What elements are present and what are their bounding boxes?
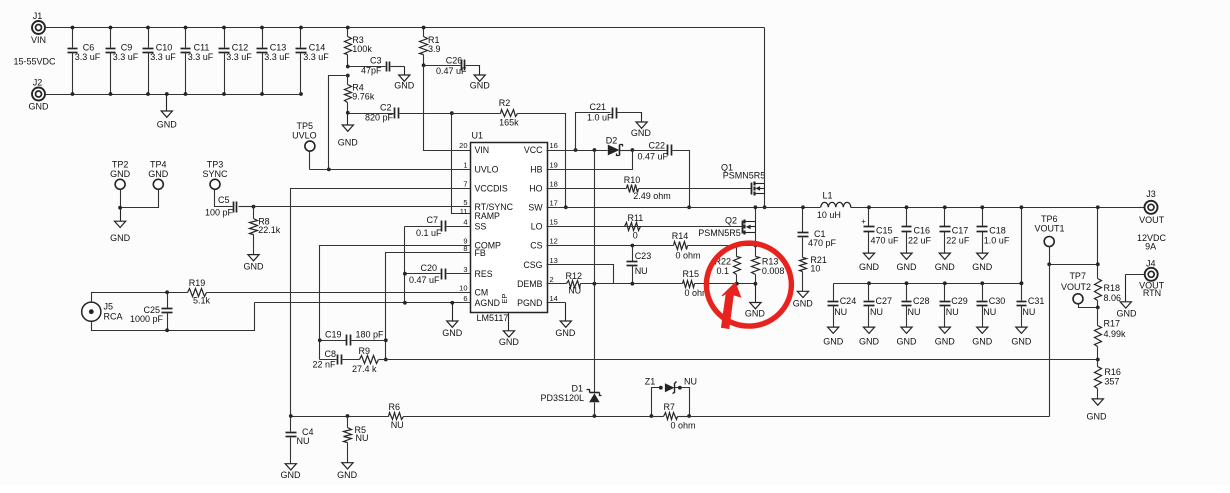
svg-text:DEMB: DEMB bbox=[517, 279, 543, 289]
wire DEMB/CSG to sense bbox=[593, 282, 683, 286]
wire VOUT rail bbox=[851, 207, 1145, 209]
wire SW node rail bbox=[547, 207, 821, 209]
wire bottom rail right bbox=[690, 416, 1050, 418]
resistor R8 22.1k bbox=[250, 207, 281, 255]
capacitor C20 0.47 uF (RES) bbox=[405, 263, 471, 285]
svg-text:12: 12 bbox=[550, 237, 558, 246]
svg-text:NU: NU bbox=[1022, 307, 1035, 317]
svg-text:C16: C16 bbox=[914, 225, 931, 235]
svg-text:L1: L1 bbox=[822, 190, 832, 200]
svg-text:C18: C18 bbox=[989, 225, 1006, 235]
wire TP6 column bbox=[1047, 247, 1051, 417]
svg-text:LM5117: LM5117 bbox=[477, 313, 509, 323]
ground (R16) bbox=[1087, 399, 1108, 422]
svg-text:0 ohm: 0 ohm bbox=[670, 420, 695, 430]
capacitor C15 470 uF bbox=[861, 205, 899, 252]
node C22 to SW bbox=[687, 205, 691, 209]
svg-text:U1: U1 bbox=[472, 131, 484, 141]
svg-text:TP7: TP7 bbox=[1069, 271, 1086, 281]
svg-text:NU: NU bbox=[946, 307, 959, 317]
svg-text:LO: LO bbox=[531, 222, 543, 232]
ground (C26) bbox=[470, 66, 491, 91]
ground (C3) bbox=[394, 67, 415, 91]
svg-text:D1: D1 bbox=[571, 384, 583, 394]
svg-text:C31: C31 bbox=[1028, 296, 1045, 306]
svg-text:GND: GND bbox=[110, 233, 131, 243]
resistor R1 3.9 bbox=[420, 26, 441, 66]
svg-text:3.3 uF: 3.3 uF bbox=[75, 52, 101, 62]
ground (C24) bbox=[823, 327, 844, 347]
svg-text:GND: GND bbox=[972, 262, 993, 272]
capacitor C4 NU bbox=[286, 417, 314, 464]
svg-text:C21: C21 bbox=[589, 102, 606, 112]
svg-text:GND: GND bbox=[244, 262, 265, 272]
wire UVLO divider tap bbox=[327, 76, 348, 172]
svg-text:0 ohm: 0 ohm bbox=[675, 251, 700, 261]
svg-text:RAMP: RAMP bbox=[475, 211, 501, 221]
resistor R21 10 bbox=[800, 255, 827, 292]
capacitor C19 180 pF bbox=[318, 329, 386, 345]
svg-text:GND: GND bbox=[897, 336, 918, 346]
svg-text:470 pF: 470 pF bbox=[808, 238, 837, 248]
capacitor C5 100 pF bbox=[205, 190, 254, 218]
wire Q1 drain from VIN rail bbox=[764, 28, 766, 184]
svg-text:R17: R17 bbox=[1104, 318, 1121, 328]
svg-text:22 uF: 22 uF bbox=[946, 235, 970, 245]
svg-text:NU: NU bbox=[356, 433, 369, 443]
svg-text:GND: GND bbox=[972, 336, 993, 346]
resistor R3 100k bbox=[345, 26, 373, 67]
svg-text:10 uH: 10 uH bbox=[817, 210, 841, 220]
svg-text:VOUT1: VOUT1 bbox=[1034, 223, 1064, 233]
svg-text:NU: NU bbox=[391, 420, 404, 430]
capacitor C31 NU bbox=[1017, 281, 1045, 326]
svg-text:0.47 uF: 0.47 uF bbox=[637, 152, 668, 162]
svg-text:UVLO: UVLO bbox=[475, 165, 499, 175]
svg-text:5: 5 bbox=[463, 198, 467, 207]
svg-text:TP4: TP4 bbox=[150, 159, 167, 169]
svg-text:Z1: Z1 bbox=[645, 376, 656, 386]
svg-text:CS: CS bbox=[530, 241, 542, 251]
svg-text:TP6: TP6 bbox=[1041, 214, 1058, 224]
ground (R13 sense) bbox=[745, 284, 766, 319]
transistor Q1 PSMN5R5 bbox=[721, 163, 765, 196]
resistor R18 8.06 bbox=[1095, 279, 1122, 308]
svg-text:GND: GND bbox=[157, 119, 178, 129]
svg-text:1.0 uF: 1.0 uF bbox=[984, 235, 1010, 245]
svg-text:FB: FB bbox=[475, 248, 486, 258]
svg-text:VOUT: VOUT bbox=[1139, 215, 1165, 225]
svg-text:PSMN5R5: PSMN5R5 bbox=[723, 171, 766, 181]
connector J5 RCA bbox=[82, 302, 123, 322]
svg-text:C15: C15 bbox=[876, 225, 893, 235]
connector J3 VOUT bbox=[1139, 189, 1165, 225]
wire TP6 to R18 link bbox=[1050, 264, 1098, 266]
ground (PGND) bbox=[547, 303, 576, 338]
svg-text:GND: GND bbox=[338, 138, 359, 148]
connector J4 VOUT RTN bbox=[1139, 258, 1165, 298]
svg-text:NU: NU bbox=[834, 307, 847, 317]
wire HB pin to boot node bbox=[547, 148, 635, 169]
svg-text:C6: C6 bbox=[83, 42, 95, 52]
svg-text:3.3 uF: 3.3 uF bbox=[264, 52, 290, 62]
resistor R9 27.4 k bbox=[352, 346, 385, 374]
svg-text:J3: J3 bbox=[1146, 189, 1156, 199]
capacitor C1 470 pF bbox=[798, 205, 837, 257]
svg-text:VIN: VIN bbox=[31, 35, 46, 45]
capacitor C23 NU bbox=[627, 246, 652, 284]
connector J2 (GND input jack) bbox=[29, 78, 50, 112]
wire RAMP feed (C2 node to pin 11) bbox=[450, 111, 471, 213]
svg-text:18: 18 bbox=[550, 180, 558, 189]
svg-text:0.008: 0.008 bbox=[762, 266, 785, 276]
svg-text:SYNC: SYNC bbox=[202, 169, 228, 179]
wire R1 column to VIN pin bbox=[424, 66, 471, 151]
capacitor C27 NU bbox=[864, 281, 893, 326]
svg-text:R2: R2 bbox=[499, 98, 511, 108]
svg-text:1.0 uF: 1.0 uF bbox=[587, 112, 613, 122]
capacitor C10 3.3 uF bbox=[143, 26, 177, 96]
wire VCC line bbox=[547, 148, 608, 152]
svg-text:C7: C7 bbox=[426, 215, 438, 225]
resistor R5 NU bbox=[344, 417, 369, 463]
svg-text:CM: CM bbox=[475, 288, 489, 298]
resistor R16 357 bbox=[1095, 360, 1121, 399]
ground (C27) bbox=[859, 327, 880, 347]
capacitor C14 3.3 uF bbox=[296, 26, 330, 96]
ground (TP2/TP4) bbox=[110, 208, 131, 243]
diode Z1 NU (zener) bbox=[645, 376, 697, 418]
wire TP5 to UVLO line bbox=[310, 152, 471, 170]
svg-text:R16: R16 bbox=[1104, 367, 1121, 377]
svg-text:C22: C22 bbox=[648, 141, 665, 151]
svg-text:HB: HB bbox=[530, 165, 542, 175]
capacitor C21 1.0 uF bbox=[576, 102, 642, 150]
capacitor C29 NU bbox=[940, 281, 968, 326]
transistor Q2 PSMN5R5 bbox=[698, 216, 755, 238]
diode D1 PD3S120L bbox=[540, 151, 601, 417]
ground (C31) bbox=[1011, 327, 1032, 347]
svg-text:Q2: Q2 bbox=[725, 216, 737, 226]
svg-text:UVLO: UVLO bbox=[292, 131, 317, 141]
capacitor C30 NU bbox=[977, 281, 1006, 326]
wire TP7 to divider bbox=[1079, 304, 1100, 310]
svg-text:NU: NU bbox=[983, 307, 996, 317]
capacitor C9 3.3 uF bbox=[106, 26, 139, 96]
svg-text:22 uF: 22 uF bbox=[908, 235, 932, 245]
capacitor C28 NU bbox=[902, 281, 930, 326]
svg-text:GND: GND bbox=[897, 262, 918, 272]
ground (EP pad) bbox=[499, 313, 520, 347]
svg-text:C9: C9 bbox=[121, 42, 133, 52]
resistor R7 0 ohm bbox=[652, 402, 696, 430]
svg-text:11: 11 bbox=[460, 207, 468, 216]
wire LO line bbox=[547, 226, 743, 228]
svg-text:PSMN5R5: PSMN5R5 bbox=[698, 228, 741, 238]
capacitor C2 820 pF bbox=[348, 103, 452, 123]
svg-text:C11: C11 bbox=[194, 42, 210, 52]
svg-text:470 uF: 470 uF bbox=[871, 235, 900, 245]
capacitor C8 22 nF bbox=[312, 349, 359, 370]
svg-text:GND: GND bbox=[110, 169, 131, 179]
svg-text:9A: 9A bbox=[1145, 242, 1156, 252]
svg-text:3.3 uF: 3.3 uF bbox=[226, 52, 252, 62]
ground (C21) bbox=[631, 113, 652, 139]
svg-text:4.99k: 4.99k bbox=[1104, 329, 1127, 339]
ground (C4) bbox=[281, 464, 302, 480]
svg-text:SW: SW bbox=[528, 203, 543, 213]
svg-text:GND: GND bbox=[859, 336, 880, 346]
capacitor C7 0.1 uF (SS) bbox=[405, 215, 471, 238]
svg-text:0.47 uF: 0.47 uF bbox=[436, 66, 467, 76]
svg-text:3.3 uF: 3.3 uF bbox=[303, 52, 329, 62]
svg-text:17: 17 bbox=[550, 199, 558, 208]
ground (R4/C2 node) bbox=[338, 111, 359, 148]
wire C31 column to VOUT rail bbox=[1020, 205, 1024, 285]
svg-text:GND: GND bbox=[442, 328, 463, 338]
wire VCCDIS to bottom rail bbox=[291, 189, 471, 417]
svg-text:9.76k: 9.76k bbox=[352, 91, 375, 101]
ground (R21) bbox=[793, 291, 814, 308]
resistor R15 0 ohm bbox=[682, 269, 757, 298]
svg-text:22.1k: 22.1k bbox=[258, 225, 281, 235]
svg-text:VCC: VCC bbox=[524, 145, 543, 155]
wire CSG jog bbox=[547, 265, 614, 284]
wire NU cap rail bbox=[834, 283, 1022, 285]
test point TP4 GND bbox=[148, 159, 169, 189]
svg-text:20: 20 bbox=[459, 141, 467, 150]
svg-text:16: 16 bbox=[550, 141, 558, 150]
test point TP7 VOUT2 bbox=[1061, 271, 1091, 304]
capacitor C11 3.3 uF bbox=[181, 26, 214, 96]
test point TP6 VOUT1 bbox=[1034, 214, 1064, 247]
svg-text:C10: C10 bbox=[156, 42, 173, 52]
capacitor C24 NU bbox=[828, 284, 857, 327]
svg-text:3.3 uF: 3.3 uF bbox=[150, 52, 176, 62]
svg-text:100 pF: 100 pF bbox=[205, 208, 234, 218]
capacitor C16 22 uF bbox=[902, 205, 932, 252]
svg-text:C24: C24 bbox=[840, 296, 857, 306]
svg-text:NU: NU bbox=[568, 286, 581, 296]
wire SYNC to RT/SYNC pin bbox=[252, 205, 471, 209]
svg-text:NU: NU bbox=[297, 436, 310, 446]
resistor R6 NU bbox=[389, 402, 404, 430]
capacitor C18 1.0 uF bbox=[977, 205, 1010, 252]
svg-text:GND: GND bbox=[859, 262, 880, 272]
svg-text:R18: R18 bbox=[1104, 283, 1121, 293]
svg-text:C29: C29 bbox=[951, 296, 968, 306]
svg-text:15-55VDC: 15-55VDC bbox=[13, 57, 56, 67]
capacitor C17 22 uF bbox=[940, 205, 970, 252]
svg-text:C13: C13 bbox=[270, 42, 287, 52]
svg-text:R11: R11 bbox=[627, 213, 643, 223]
test point TP3 SYNC bbox=[202, 159, 228, 189]
svg-text:C28: C28 bbox=[913, 296, 930, 306]
resistor R2 165k bbox=[452, 98, 566, 208]
svg-text:CSG: CSG bbox=[523, 260, 542, 270]
svg-text:VIN: VIN bbox=[475, 145, 490, 155]
svg-text:0.1: 0.1 bbox=[716, 266, 729, 276]
wire TP2/TP4 tie bbox=[118, 190, 158, 210]
capacitor C6 3.3 uF bbox=[68, 26, 101, 96]
svg-text:10: 10 bbox=[810, 263, 820, 273]
wire AGND extension bbox=[255, 302, 471, 304]
svg-text:GND: GND bbox=[793, 299, 814, 309]
svg-text:7: 7 bbox=[463, 180, 467, 189]
svg-text:3.3 uF: 3.3 uF bbox=[188, 52, 214, 62]
svg-text:HO: HO bbox=[529, 184, 542, 194]
svg-text:0: 0 bbox=[633, 231, 638, 241]
ground (R5) bbox=[337, 463, 358, 480]
svg-text:TP2: TP2 bbox=[112, 159, 129, 169]
svg-text:27.4 k: 27.4 k bbox=[352, 364, 377, 374]
svg-text:C12: C12 bbox=[232, 42, 249, 52]
svg-text:2: 2 bbox=[550, 275, 554, 284]
wire bottom rail middle bbox=[404, 414, 652, 418]
svg-text:GND: GND bbox=[935, 336, 956, 346]
wire bottom rail left bbox=[289, 414, 389, 418]
svg-text:2.49 ohm: 2.49 ohm bbox=[633, 191, 671, 201]
svg-text:+: + bbox=[861, 217, 866, 226]
svg-text:GND: GND bbox=[555, 328, 576, 338]
wire FB sense line bbox=[386, 359, 1098, 361]
wire CS line bbox=[547, 244, 674, 248]
capacitor C3 47pF bbox=[346, 55, 405, 75]
ground (C15) bbox=[859, 253, 880, 273]
wire VOUT to R18 column bbox=[1096, 205, 1100, 278]
svg-text:GND: GND bbox=[1011, 336, 1032, 346]
svg-text:3.9: 3.9 bbox=[428, 44, 441, 54]
svg-text:3: 3 bbox=[463, 265, 467, 274]
svg-text:22 nF: 22 nF bbox=[312, 359, 336, 369]
svg-text:R15: R15 bbox=[682, 269, 699, 279]
wire C7/C20 ground return bbox=[403, 227, 407, 305]
svg-text:C26: C26 bbox=[446, 55, 463, 65]
svg-text:0.47 uF: 0.47 uF bbox=[409, 275, 440, 285]
label 12VDC 9A bbox=[1137, 233, 1167, 252]
svg-text:J1: J1 bbox=[33, 11, 43, 21]
svg-text:PGND: PGND bbox=[517, 298, 542, 308]
svg-text:R6: R6 bbox=[389, 402, 401, 412]
svg-text:NU: NU bbox=[908, 307, 921, 317]
ground (C17) bbox=[935, 253, 956, 273]
wire COMP drop bbox=[320, 246, 471, 360]
svg-text:R19: R19 bbox=[189, 278, 206, 288]
svg-text:GND: GND bbox=[394, 80, 415, 90]
svg-text:C30: C30 bbox=[989, 296, 1006, 306]
svg-text:C3: C3 bbox=[370, 55, 382, 65]
svg-text:6: 6 bbox=[463, 294, 467, 303]
svg-text:R12: R12 bbox=[566, 271, 583, 281]
svg-text:EP: EP bbox=[500, 294, 509, 304]
resistor R11 0 (LO series) bbox=[625, 213, 644, 241]
svg-text:TP5: TP5 bbox=[297, 121, 314, 131]
wire J5 bottom return bbox=[92, 303, 255, 333]
diode D2 (VCC to HB bootstrap) bbox=[606, 136, 633, 156]
ground (C16) bbox=[897, 253, 918, 273]
svg-text:D2: D2 bbox=[606, 136, 618, 146]
resistor R12 NU (DEMB) bbox=[547, 271, 614, 296]
wire FB drop bbox=[384, 253, 471, 362]
svg-text:C17: C17 bbox=[952, 225, 969, 235]
svg-text:C27: C27 bbox=[876, 296, 893, 306]
svg-text:RES: RES bbox=[475, 269, 493, 279]
svg-text:357: 357 bbox=[1104, 377, 1119, 387]
op-amp U1 LM5117 controller IC bbox=[459, 131, 558, 324]
node SW drop from R2 bbox=[564, 205, 568, 209]
inductor L1 10 uH bbox=[817, 190, 851, 220]
svg-text:R7: R7 bbox=[663, 402, 675, 412]
svg-text:C19: C19 bbox=[325, 329, 342, 339]
ground (C30) bbox=[972, 327, 993, 347]
svg-text:15: 15 bbox=[550, 218, 558, 227]
svg-text:C8: C8 bbox=[324, 349, 336, 359]
ground (AGND) bbox=[442, 301, 463, 338]
svg-text:C14: C14 bbox=[309, 42, 326, 52]
svg-text:10: 10 bbox=[459, 284, 467, 293]
svg-text:VOUT2: VOUT2 bbox=[1061, 282, 1091, 292]
wire input bottom rail bbox=[45, 94, 301, 96]
svg-text:GND: GND bbox=[745, 309, 766, 319]
svg-text:R14: R14 bbox=[672, 231, 689, 241]
wire Q2 source to CS node bbox=[754, 233, 758, 248]
svg-text:NU: NU bbox=[870, 307, 883, 317]
svg-text:GND: GND bbox=[148, 169, 169, 179]
ground (C18) bbox=[972, 253, 993, 273]
svg-text:R10: R10 bbox=[624, 175, 641, 185]
resistor R14 0 ohm bbox=[672, 231, 756, 261]
svg-text:14: 14 bbox=[550, 294, 558, 303]
svg-text:1: 1 bbox=[463, 161, 467, 170]
wire top VIN rail bbox=[45, 27, 765, 29]
capacitor C13 3.3 uF bbox=[257, 26, 291, 96]
svg-text:C20: C20 bbox=[420, 263, 437, 273]
svg-text:GND: GND bbox=[631, 128, 652, 138]
svg-text:NU: NU bbox=[684, 376, 697, 386]
node FB tap bbox=[1096, 358, 1100, 362]
ground (C28) bbox=[897, 327, 918, 347]
svg-text:8.06: 8.06 bbox=[1104, 293, 1122, 303]
capacitor C25 1000 pF bbox=[130, 293, 173, 331]
svg-text:13: 13 bbox=[550, 256, 558, 265]
svg-text:GND: GND bbox=[337, 470, 358, 480]
svg-text:J2: J2 bbox=[33, 78, 43, 88]
svg-text:0.1 uF: 0.1 uF bbox=[416, 228, 442, 238]
svg-text:GND: GND bbox=[281, 470, 302, 480]
svg-text:5.1k: 5.1k bbox=[193, 296, 211, 306]
svg-text:VCCDIS: VCCDIS bbox=[475, 184, 508, 194]
resistor R4 9.76k bbox=[345, 74, 375, 113]
capacitor C26 0.47 uF bbox=[422, 55, 480, 76]
svg-text:180 pF: 180 pF bbox=[356, 329, 385, 339]
svg-text:PD3S120L: PD3S120L bbox=[540, 393, 584, 403]
svg-text:J4: J4 bbox=[1146, 258, 1156, 268]
svg-text:AGND: AGND bbox=[475, 298, 500, 308]
svg-text:GND: GND bbox=[823, 336, 844, 346]
resistor R13 0.008 bbox=[752, 246, 785, 284]
svg-text:R9: R9 bbox=[359, 346, 371, 356]
svg-text:1000 pF: 1000 pF bbox=[130, 314, 164, 324]
svg-text:SS: SS bbox=[475, 222, 487, 232]
svg-text:RTN: RTN bbox=[1143, 288, 1161, 298]
connector J1 (VIN input jack) bbox=[31, 11, 46, 45]
svg-text:820 pF: 820 pF bbox=[365, 113, 394, 123]
test point TP2 GND bbox=[110, 159, 131, 189]
capacitor C12 3.3 uF bbox=[219, 26, 253, 96]
ground (J4) bbox=[1117, 275, 1138, 319]
svg-text:4: 4 bbox=[463, 218, 467, 227]
svg-text:GND: GND bbox=[1087, 412, 1108, 422]
